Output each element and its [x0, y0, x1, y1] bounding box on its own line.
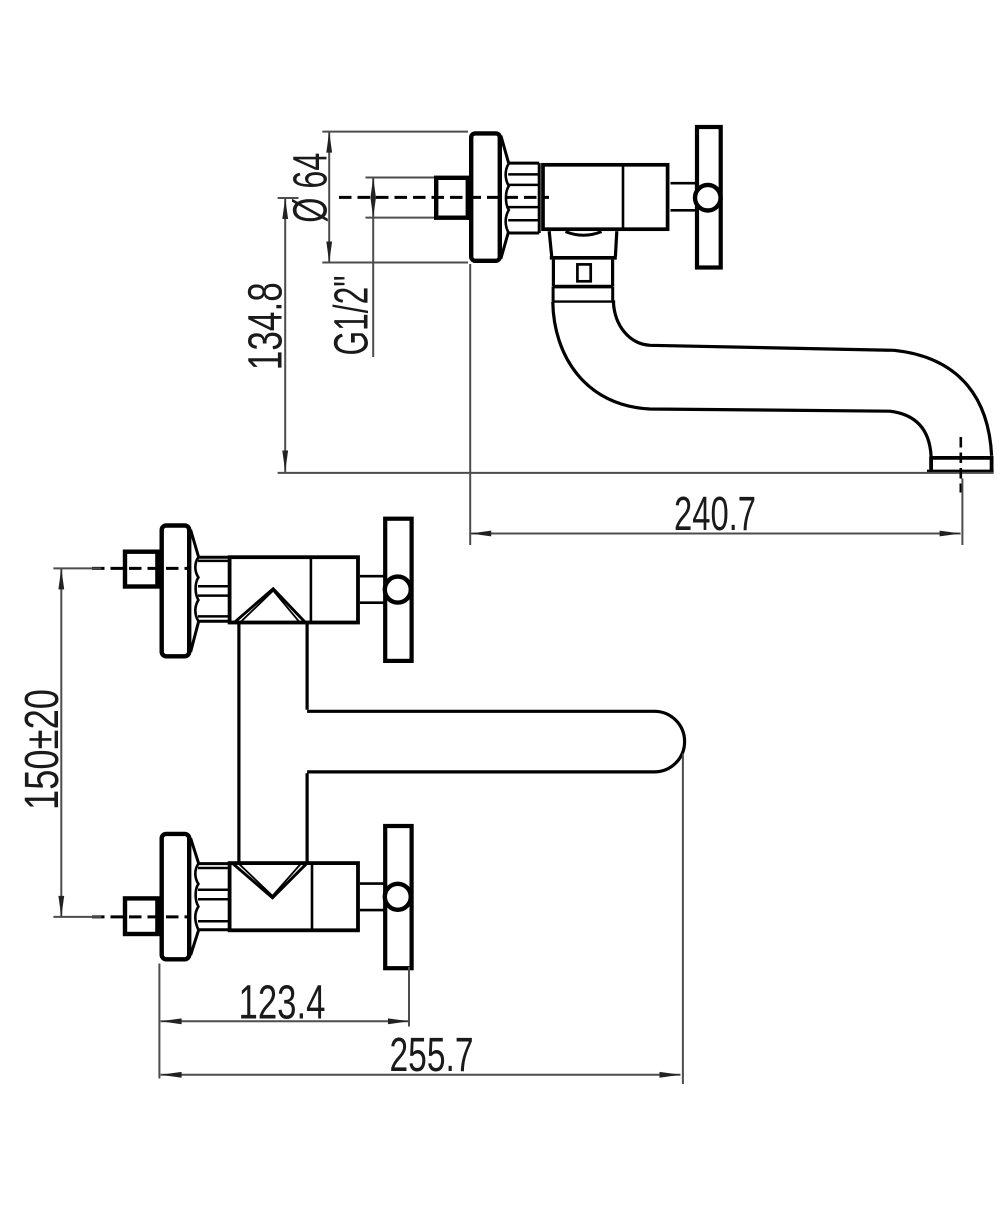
- top cross handle hub circle: [385, 577, 411, 603]
- spout (front view, stadium shape): [307, 711, 685, 772]
- top knurl ridges: [198, 561, 230, 617]
- bottom valve body divider: [311, 862, 314, 931]
- svg-text:134.8: 134.8: [240, 282, 293, 370]
- wire: dashed centerline of top view: [339, 196, 549, 199]
- column left rail: [237, 624, 240, 864]
- bottom G1/2 nipple (front view): [125, 898, 157, 934]
- neck ridge line: [550, 256, 617, 260]
- bottom union: dashed centerline: [92, 915, 189, 918]
- dimension 123.4 line: [161, 1020, 409, 1022]
- bottom knurled nut wavy edge: [195, 864, 198, 930]
- ball joint arc under body: [566, 232, 602, 236]
- handle stem (side view): [671, 183, 696, 210]
- cross handle bar (side view): [697, 127, 721, 268]
- column right rail (interrupted by spout): [306, 624, 309, 864]
- bottom handle stem (front view): [360, 884, 385, 911]
- lower neck sides (side view): [553, 260, 612, 287]
- dimension 255.7 line: [161, 1074, 681, 1076]
- dimension Ø64 extension lines: [322, 132, 468, 263]
- spout aerator tip band: [927, 456, 994, 472]
- dimension 123.4 extension lines: [159, 964, 409, 1079]
- band line thick: [553, 285, 613, 289]
- bottom knurl ridges: [198, 868, 230, 921]
- top cross handle bar (front view): [385, 519, 411, 661]
- top G1/2 nipple (front view): [125, 552, 157, 587]
- knurled nut wavy left edge (side view): [506, 163, 509, 233]
- dimension 240.7 extension lines: [470, 264, 962, 545]
- bottom union: extension tick: [53, 916, 101, 918]
- svg-text:240.7: 240.7: [674, 488, 756, 541]
- bottom cross handle hub circle: [385, 884, 411, 910]
- cross handle hub circle (side view): [695, 185, 721, 211]
- top knurled nut: [198, 557, 230, 621]
- svg-text:123.4: 123.4: [239, 976, 326, 1029]
- top valve body (front view): [230, 557, 358, 622]
- bottom wall flange (front view): [162, 834, 190, 959]
- bottom valve body (front view): [230, 863, 358, 930]
- dimension 134.8 tick at centerline: [278, 197, 299, 199]
- valve body divider line: [622, 163, 625, 231]
- bottom chevron union mark: [233, 864, 306, 898]
- dashed centerline at spout tip: [959, 437, 962, 493]
- G1/2 nipple (side view): [436, 178, 468, 218]
- band line thin: [553, 300, 616, 302]
- spout upper-inner edge (side view): [613, 302, 991, 456]
- upper neck below body (side view): [549, 231, 617, 256]
- svg-text:Ø 64: Ø 64: [284, 153, 337, 223]
- wall flange (side view): [471, 133, 500, 260]
- dimension Ø64 line: [328, 132, 330, 263]
- small screw detail rectangle: [577, 264, 590, 281]
- dimension G1/2 line: [372, 178, 374, 358]
- dimension 150±20 line: [60, 568, 62, 917]
- top knurled nut wavy edge: [195, 557, 198, 621]
- wall reference baseline (top view): [278, 472, 994, 474]
- knurl ridges (side view): [508, 174, 539, 220]
- dimension G1/2 extension lines: [366, 178, 435, 218]
- top wall flange (front view): [162, 526, 190, 657]
- spout lower-outer edge (side view): [553, 302, 931, 457]
- dimension 240.7 line: [470, 533, 960, 535]
- dimension 255.7 extension line at spout tip: [682, 754, 684, 1085]
- top union: extension tick: [53, 567, 101, 569]
- top handle stem (front view): [360, 576, 385, 603]
- top valve body divider: [310, 556, 313, 623]
- svg-text:255.7: 255.7: [390, 1029, 474, 1082]
- svg-text:150±20: 150±20: [16, 689, 69, 810]
- bottom cross handle bar (front view): [385, 826, 411, 968]
- band sides: [553, 287, 613, 302]
- dimension 134.8 line: [284, 198, 286, 472]
- top union: dashed centerline: [92, 567, 189, 570]
- bottom knurled nut: [198, 864, 230, 930]
- valve body (side view): [543, 165, 668, 229]
- knurled nut (side view): [509, 163, 540, 233]
- top chevron union mark: [233, 589, 306, 624]
- svg-text:G1/2": G1/2": [326, 276, 379, 356]
